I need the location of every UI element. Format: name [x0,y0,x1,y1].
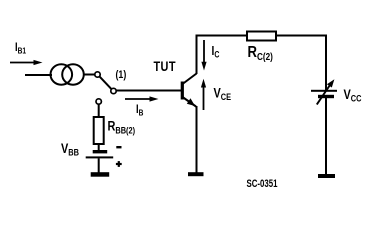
svg-text:RC(2): RC(2) [248,44,273,62]
wire: R_BB to battery [98,144,100,150]
label TUT [154,59,176,75]
wire: collector to top rail [196,35,198,75]
label I_C [212,44,220,60]
wire: top rail right and corner down [276,36,326,91]
label V_CC [344,87,362,104]
switch S1 pole [111,88,116,93]
voltage arrow V_CE [201,79,206,110]
wire: input to current source [25,74,52,76]
svg-text:VCC: VCC [344,87,362,104]
switch S1 contact a [95,72,100,77]
svg-text:IB1: IB1 [15,41,27,56]
wire: switch contact b down to R_BB [98,104,100,117]
svg-text:IB: IB [136,103,144,118]
label R_BB(2) [108,118,136,135]
wire: current source to switch contact [83,74,95,76]
source V_CC (variable) [311,79,337,104]
label R_C(2) [248,44,273,62]
label (1) [116,69,127,81]
label I_B [136,103,144,118]
resistor R_BB(2) [94,117,104,144]
wire: emitter down [196,106,198,173]
label V_BB [61,141,79,158]
ground (right) [318,174,335,178]
wire: V_CC to ground [325,98,327,175]
current arrow I_B1 [10,60,43,65]
svg-text:IC: IC [212,44,220,60]
svg-text:VBB: VBB [61,141,79,158]
switch S1 blade [100,77,112,89]
current source (interlinked circles) [51,64,84,84]
resistor R_C(2) [247,32,276,41]
battery V_BB [86,150,114,158]
wire: switch pole to transistor base [117,90,182,92]
svg-text:SC-0351: SC-0351 [247,178,278,190]
label plus [116,161,122,167]
svg-text:TUT: TUT [154,59,176,75]
svg-text:(1): (1) [116,69,127,81]
label SC-0351 [247,178,278,190]
label V_CE [214,85,232,102]
ground (V_BB) [91,172,110,177]
svg-text:RBB(2): RBB(2) [108,118,136,135]
current arrow I_B [125,96,159,101]
svg-text:VCE: VCE [214,85,232,102]
label minus [116,146,121,148]
transistor TUT (NPN) [181,74,197,107]
wire: top rail left [196,35,247,37]
wire: battery to ground [98,158,100,172]
current arrow I_C [201,40,206,71]
label I_B1 [15,41,27,56]
ground (emitter) [188,172,204,176]
switch S1 contact b [96,99,101,104]
